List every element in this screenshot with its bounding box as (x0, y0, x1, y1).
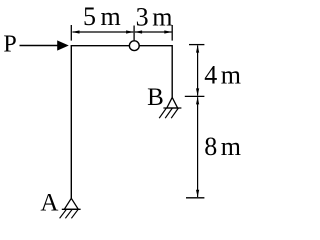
support A: ground line (62, 208, 81, 210)
svg-text:P: P (3, 32, 16, 58)
dimension tick at bottom (A level, right side) (186, 197, 204, 199)
dimension tick at top-right corner (171, 25, 173, 41)
support B: ground line (163, 107, 181, 109)
dimension tick above hinge (133, 26, 135, 41)
dimension line 5 m (with outward arrowheads) (72, 30, 134, 33)
dimension line 3 m (with outward arrowheads) (135, 30, 172, 33)
member: top beam (corner to corner) (71, 45, 173, 47)
support B: hatching (159, 108, 178, 118)
member: left column (A to top-left corner) (70, 46, 72, 199)
svg-text:A: A (40, 190, 58, 217)
svg-text:8 m: 8 m (204, 132, 241, 161)
svg-text:3 m: 3 m (136, 2, 173, 31)
support A: pin triangle (64, 198, 78, 209)
dimension line 8 m (vertical, outward arrowheads) (196, 97, 199, 197)
svg-text:5 m: 5 m (83, 2, 121, 31)
dimension tick at top-left corner (70, 25, 72, 41)
svg-text:B: B (147, 84, 164, 111)
support B: pin triangle (167, 97, 178, 108)
member: right column (top-right corner to B) (171, 45, 173, 97)
hinge circle on beam (129, 41, 139, 51)
dimension line 4 m (vertical, outward arrowheads) (196, 45, 199, 96)
dimension tick at B level (right side) (185, 95, 205, 97)
svg-text:4 m: 4 m (204, 61, 241, 90)
support A: hatching (60, 209, 79, 218)
force P arrow (20, 40, 69, 50)
dimension tick at beam level (right side) (189, 44, 204, 46)
